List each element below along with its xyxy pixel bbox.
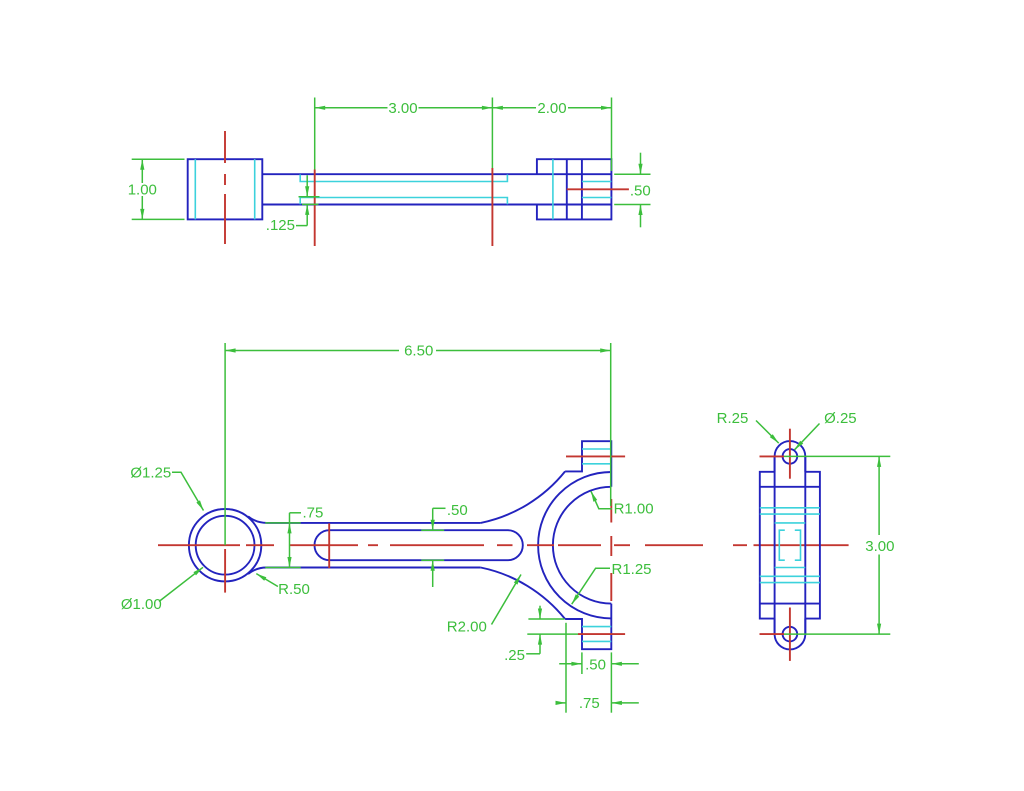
dimension 3.00 side dimension line [878, 456, 880, 634]
dimension .50 extension line bottom [614, 204, 650, 206]
front view: hidden hole edge top tab upper [582, 448, 611, 450]
side view: bottom hole Ø.25 [783, 627, 798, 642]
label Ø1.25 leader [172, 472, 204, 510]
dimension .50 arrow line top [640, 153, 642, 175]
side view: web edge right [804, 456, 806, 634]
top view: hidden hole edge bottom [582, 197, 612, 199]
label R.25 leader [756, 421, 779, 444]
dimension .75 bottom arrow left-pointing [611, 701, 622, 705]
top view: step edge [566, 159, 568, 219]
front view: top flange step and tab outline [565, 441, 611, 487]
dimension 6.50 extension line right [610, 343, 612, 506]
dimension 2.00 arrow right [601, 106, 612, 110]
dimension .50 bottom extension line left [581, 652, 583, 674]
front view: hidden hole edge top tab lower [582, 463, 611, 465]
label R.50 arrowhead [256, 574, 266, 581]
side view: bottom tab stadium [775, 619, 806, 650]
front view: shaft bottom edge [267, 567, 481, 569]
dimension 6.50 dimension line [225, 350, 611, 352]
svg-text:.125: .125 [266, 217, 295, 234]
side view: inner arc bottom edge [760, 603, 820, 605]
label R.25 arrowhead [770, 434, 779, 443]
dimension .125 leader [296, 225, 307, 227]
dimension .50 slot leader [433, 507, 446, 509]
label R1.00 leader [591, 491, 612, 508]
dimension .75 arrow up [287, 523, 291, 534]
front view: slot-end vertical centerline [328, 523, 330, 568]
dimension .125 extension tick bottom [302, 203, 319, 205]
dimension .50 bottom arrow right-pointing [571, 662, 582, 666]
dimension .50 arrow line bottom [640, 205, 642, 228]
svg-text:.75: .75 [303, 504, 324, 521]
front view: bore circle Ø1.00 [196, 516, 255, 575]
dimension .75 bottom arrow line right [611, 702, 638, 704]
dimension 1.00 extension line bottom [132, 218, 185, 220]
top view: tab edge [581, 159, 583, 219]
front view: bell curve bottom [481, 568, 565, 620]
svg-text:2.00: 2.00 [537, 100, 566, 117]
label R2.00 arrowhead [514, 575, 521, 585]
dimension .50 arrow down [638, 164, 642, 175]
svg-text:R.25: R.25 [717, 410, 749, 427]
side view: hidden slot section right [795, 530, 801, 560]
dimension .125 arrow down [305, 186, 309, 197]
side view: body outline [760, 472, 820, 619]
front view: big end inner arc R1.00 [553, 487, 611, 604]
dimension 1.00 arrow up [140, 159, 144, 170]
dimension .50 slot arrow down [431, 520, 435, 531]
side view: web edge left [774, 456, 776, 634]
side view: hidden shaft edge bottom [775, 567, 806, 569]
label R2.00 leader [492, 575, 522, 625]
svg-text:1.00: 1.00 [128, 181, 157, 198]
dimension .75 extension tick bottom [265, 567, 301, 569]
front view: bell curve top [481, 471, 565, 523]
top view: slot-end centerline right [491, 168, 493, 246]
dimension .25 extension line top [528, 618, 564, 620]
side view: hidden pocket edge 3 [760, 575, 820, 577]
dimension 1.00 extension line top [132, 158, 185, 160]
front view: boss vertical centerline [224, 549, 226, 593]
dimension .25 extension line bottom [527, 633, 578, 635]
svg-text:3.00: 3.00 [865, 538, 894, 555]
dimension .50 bottom arrow line left [559, 663, 582, 665]
dimension .25 leader [526, 653, 540, 655]
front view: boss outer circle Ø1.25 [189, 509, 261, 581]
dimension .75 bottom extension line left [565, 623, 567, 713]
front view: shaft top edge [267, 522, 481, 524]
svg-text:.50: .50 [630, 182, 651, 199]
dimension .125 arrow line bottom [306, 204, 308, 225]
front view: bottom flange step and tab outline [565, 604, 611, 650]
dimension .50 slot extension tick top [421, 529, 444, 531]
dimension 3.00 arrow right [482, 106, 493, 110]
dimension .50 arrow up [638, 205, 642, 216]
top view: slot-end centerline left [314, 170, 316, 247]
dimension 1.00 dimension line [141, 159, 143, 219]
svg-text:6.50: 6.50 [404, 343, 433, 360]
svg-text:R1.25: R1.25 [612, 561, 652, 578]
front view: hidden hole edge bottom tab upper [582, 626, 611, 628]
label R.50 leader [256, 574, 278, 587]
dimension 3.00 extension line left [314, 98, 316, 170]
top view: shaft bottom edge [262, 204, 611, 206]
dimension .25 arrow line top [539, 606, 541, 619]
dimension 2.00 extension line right [611, 98, 613, 172]
label R1.25 arrowhead [572, 594, 580, 604]
dimension .25 arrow down [538, 609, 542, 620]
dimension 2.00 dimension line [492, 107, 611, 109]
top view: hidden bore edge left [194, 159, 196, 219]
side view: hidden slot section left [779, 530, 785, 560]
dimension .75 leader [290, 512, 302, 514]
dimension .75 arrow down [287, 557, 291, 568]
dimension .50 extension line top [614, 173, 650, 175]
dimension .75 dimension line [289, 513, 291, 568]
dimension .50/.75 shared extension line right [610, 652, 612, 712]
dimension .50 slot extension tick bottom [421, 559, 444, 561]
top view: hidden inner-arc edge [552, 159, 554, 219]
dimension .125 extension tick top [299, 196, 320, 198]
top view: hole axis centerline [567, 188, 629, 190]
dimension .125 arrow up [305, 204, 309, 215]
svg-text:R2.00: R2.00 [447, 619, 487, 636]
front view: bottom tab hole centerline [578, 633, 625, 635]
side view: hidden shaft edge top [775, 522, 806, 524]
top view: hidden recess top edge [300, 175, 507, 182]
side view: bottom hole vertical centerline [789, 608, 791, 661]
top view: big end block outline [537, 159, 612, 219]
side view: bottom hole horizontal centerline [760, 633, 785, 635]
svg-text:R.50: R.50 [278, 581, 310, 598]
dimension 3.00 dimension line [315, 107, 493, 109]
dimension 3.00 arrow left [315, 106, 326, 110]
label Ø.25 arrowhead [795, 441, 804, 450]
svg-text:.75: .75 [579, 695, 600, 712]
dimension 3.00/2.00 shared extension line [491, 98, 493, 169]
svg-text:.50: .50 [585, 656, 606, 673]
label Ø1.25 arrowhead [196, 500, 203, 510]
top view: boss vertical centerline [224, 131, 226, 244]
side view: top tab stadium [775, 441, 806, 472]
dimension 3.00 side arrow up [877, 456, 881, 467]
side view: hidden pocket edge 2 [760, 513, 820, 515]
label Ø1.00 leader [159, 567, 203, 601]
front view: slot (stadium) [315, 530, 523, 560]
dimension 6.50 extension line left [224, 343, 226, 545]
front view: big end vertical centerline [610, 499, 612, 601]
svg-text:R1.00: R1.00 [614, 501, 654, 518]
dimension 6.50 arrow left [225, 348, 236, 352]
side view: hidden pocket edge 1 [760, 507, 820, 509]
side view: inner arc top edge [760, 486, 820, 488]
dimension .75 bottom arrow right-pointing [556, 701, 567, 705]
dimension 3.00 side extension line top [784, 455, 890, 457]
dimension .25 arrow up [538, 634, 542, 645]
top view: pin boss rectangle [188, 159, 263, 219]
dimension 3.00 side extension line bottom [784, 633, 890, 635]
dimension .75 extension tick top [265, 522, 301, 524]
dimension 6.50 arrow right [600, 348, 611, 352]
dimension 3.00 side arrow down [877, 624, 881, 635]
svg-text:3.00: 3.00 [388, 100, 417, 117]
top view: hidden hole edge top [582, 181, 612, 183]
main horizontal centerline [158, 544, 849, 546]
front view: R.50 fillet top [248, 516, 267, 523]
label Ø1.00 arrowhead [193, 567, 203, 575]
dimension .75 bottom arrow line left [556, 702, 566, 704]
svg-text:Ø1.00: Ø1.00 [121, 596, 162, 613]
front view: big end outer arc R1.25 [538, 472, 611, 618]
top view: shaft top edge [262, 173, 611, 175]
label Ø.25 leader [795, 424, 820, 450]
dimension 1.00 arrow down [140, 209, 144, 220]
dimension .25 arrow line bottom [539, 634, 541, 654]
front view: top tab hole centerline [566, 455, 625, 457]
top view: hidden bore edge right [254, 159, 256, 219]
svg-text:Ø1.25: Ø1.25 [130, 464, 171, 481]
dimension .50 bottom arrow left-pointing [611, 662, 622, 666]
svg-text:.50: .50 [447, 502, 468, 519]
side view: hidden pocket edge 4 [760, 582, 820, 584]
side view: top hole vertical centerline [789, 429, 791, 479]
dimension .50 bottom arrow line right [611, 663, 638, 665]
top view: hidden recess bottom edge [300, 198, 507, 205]
dimension .50 slot arrow line top [432, 508, 434, 530]
label R1.00 arrowhead [591, 491, 597, 501]
dimension .125 arrow line top [306, 175, 308, 197]
label R1.25 leader [572, 568, 610, 604]
front view: R.50 fillet bottom [248, 568, 267, 575]
front view: hidden hole edge bottom tab lower [582, 640, 611, 642]
svg-text:Ø.25: Ø.25 [824, 410, 857, 427]
side view: top hole Ø.25 [783, 449, 798, 464]
dimension .50 slot arrow line bottom [432, 560, 434, 587]
side view: top hole horizontal centerline [760, 455, 785, 457]
dimension .50 slot arrow up [431, 560, 435, 571]
dimension 2.00 arrow left [492, 106, 503, 110]
svg-text:.25: .25 [504, 647, 525, 664]
